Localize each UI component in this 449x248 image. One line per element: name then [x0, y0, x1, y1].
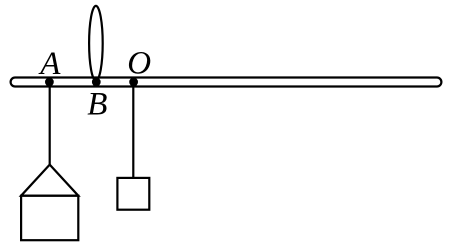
lever rod [11, 78, 442, 87]
node A [45, 78, 54, 87]
house weight body [21, 196, 78, 241]
wire from O to square weight [132, 82, 134, 178]
svg-text:O: O [127, 45, 151, 81]
square weight [117, 178, 149, 210]
wire from A to house weight [49, 82, 51, 165]
node B [92, 78, 101, 87]
svg-text:B: B [87, 87, 107, 123]
node O [129, 78, 138, 87]
svg-text:A: A [38, 46, 61, 82]
loop ellipse at B [89, 6, 103, 81]
house weight triangle top [21, 165, 78, 196]
